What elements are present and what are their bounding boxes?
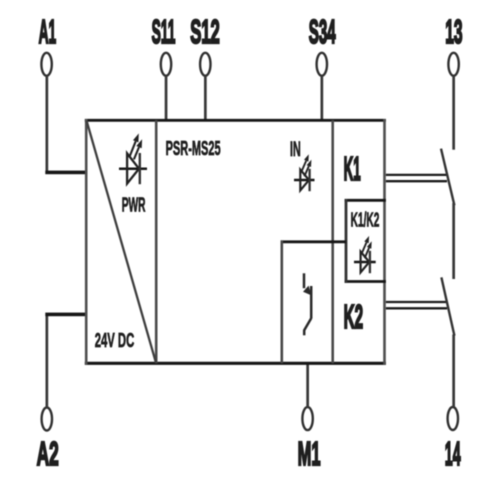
wire S34: [321, 76, 324, 121]
wire A2 horizontal: [45, 313, 86, 317]
svg-text:PSR-MS25: PSR-MS25: [166, 138, 221, 160]
middle sub-box: [281, 240, 347, 363]
svg-text:K2: K2: [344, 300, 363, 336]
svg-text:S34: S34: [309, 15, 336, 51]
terminal S12: [200, 53, 210, 76]
K1/K2 box: [345, 199, 386, 283]
svg-text:K1/K2: K1/K2: [351, 210, 380, 231]
wire S11: [165, 76, 168, 121]
main block U1: [85, 119, 386, 365]
contact K2 blade: [441, 277, 454, 335]
svg-text:M1: M1: [298, 434, 321, 472]
svg-text:13: 13: [445, 15, 462, 51]
wire M1: [306, 363, 309, 407]
svg-text:24V DC: 24V DC: [95, 330, 135, 352]
svg-text:14: 14: [445, 436, 461, 472]
wire A1 horizontal: [45, 171, 86, 175]
svg-text:S12: S12: [190, 12, 220, 50]
terminal A1: [41, 53, 51, 76]
LED PWR: [119, 133, 147, 184]
wire A2 vertical: [46, 314, 49, 408]
mechanical link K1: [386, 175, 447, 181]
terminal A2: [42, 408, 52, 431]
terminal M1: [302, 407, 312, 430]
contact K1 blade: [441, 149, 454, 206]
svg-text:S11: S11: [152, 14, 176, 51]
wire S12: [204, 76, 207, 121]
terminal S11: [161, 53, 171, 76]
LED IN: [294, 154, 315, 191]
wire A1 vertical: [46, 76, 49, 171]
svg-text:A2: A2: [37, 435, 59, 473]
K column separator: [331, 120, 334, 363]
power section separator: [155, 120, 158, 363]
semiconductor output Q1: [303, 273, 311, 335]
svg-text:IN: IN: [290, 137, 301, 161]
svg-text:A1: A1: [39, 14, 57, 51]
wire between contacts: [452, 203, 455, 279]
wire 14: [452, 335, 455, 408]
terminal S34: [317, 53, 327, 76]
wire 13: [452, 76, 455, 150]
svg-text:PWR: PWR: [122, 195, 146, 216]
power section diagonal: [87, 121, 156, 363]
terminal 13: [448, 53, 458, 76]
LED K1/K2: [354, 236, 376, 273]
mechanical link K2: [386, 302, 447, 308]
terminal 14: [448, 407, 458, 430]
svg-text:K1: K1: [344, 151, 361, 188]
